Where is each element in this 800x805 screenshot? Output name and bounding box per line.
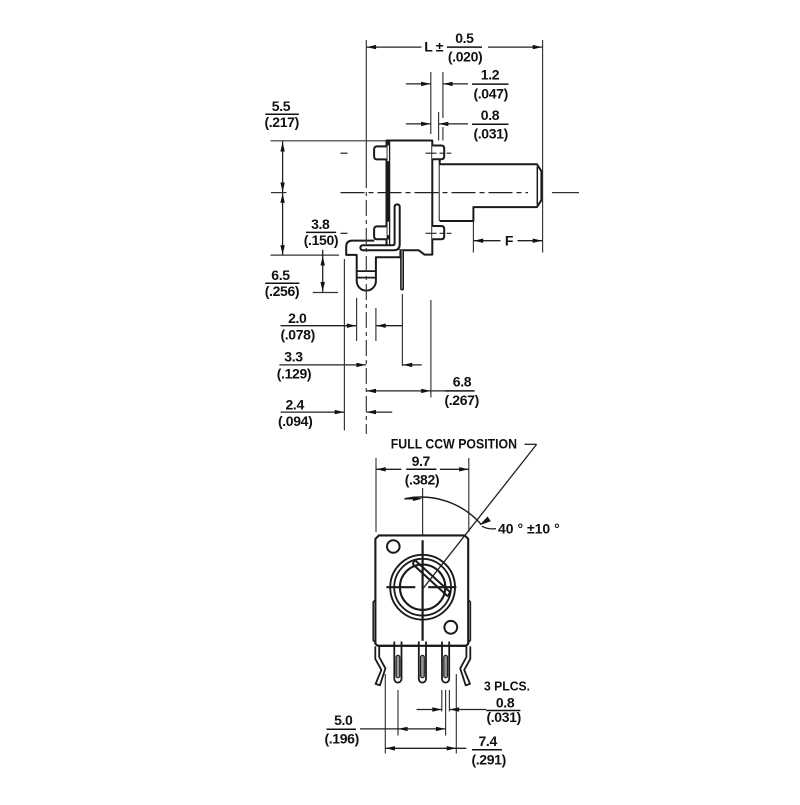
left bent leg	[375, 646, 385, 685]
mounting hole bottom-right	[444, 621, 457, 634]
lower right mounting tab	[432, 226, 444, 239]
bushing and shaft	[440, 164, 542, 221]
plastic base and support pin (bullet)	[346, 241, 400, 291]
svg-text:5.0: 5.0	[334, 712, 353, 728]
base left edge extension line	[343, 259, 345, 431]
0.8/(.031) bottom dimension	[417, 709, 442, 711]
svg-text:5.5: 5.5	[272, 98, 291, 114]
leader tick	[525, 443, 537, 445]
pin tip extension line	[313, 292, 338, 294]
svg-text:(.129): (.129)	[277, 366, 311, 382]
horizontal center line of shaft	[271, 192, 287, 194]
0.8/(.031) dimension	[438, 112, 440, 141]
right bent leg	[460, 646, 470, 685]
svg-text:L ±: L ±	[424, 39, 443, 55]
pin 1	[394, 642, 401, 683]
support pin edge extension lines	[356, 298, 358, 341]
svg-text:(.291): (.291)	[471, 751, 505, 767]
svg-text:(.382): (.382)	[405, 471, 439, 487]
svg-text:2.0: 2.0	[288, 310, 307, 326]
6.8/(.267) dimension	[367, 390, 446, 392]
shaft chamfer inner line	[536, 167, 538, 205]
body right edge extension line	[430, 300, 432, 398]
vertical center line of support pin (ext line for L dim)	[365, 40, 367, 172]
svg-text:9.7: 9.7	[412, 453, 431, 469]
pin 2	[419, 642, 426, 683]
body left inner wall	[389, 141, 391, 250]
svg-text:0.8: 0.8	[481, 107, 500, 123]
support pin center line (dash-dot)	[365, 172, 367, 434]
1.2/(.047) dimension	[430, 72, 432, 134]
svg-text:(.217): (.217)	[264, 114, 298, 130]
svg-text:1.2: 1.2	[481, 67, 500, 83]
svg-text:3.3: 3.3	[284, 349, 303, 365]
svg-text:F: F	[505, 233, 514, 249]
svg-text:FULL CCW POSITION: FULL CCW POSITION	[391, 435, 517, 451]
shaft center line (dash-dot)	[341, 192, 529, 194]
svg-text:0.5: 0.5	[455, 30, 474, 46]
40 degree arc	[405, 497, 481, 524]
F dimension	[474, 240, 501, 242]
tab slot center lines (dash-dot)	[341, 152, 353, 154]
lower left mounting tab	[374, 226, 387, 239]
rotor rings	[390, 555, 455, 620]
support pin crimp lines	[357, 270, 376, 272]
base bottom extension line	[271, 254, 340, 256]
rotor crosshair	[422, 540, 424, 641]
svg-text:2.4: 2.4	[285, 396, 304, 412]
mounting hole top-left	[387, 540, 400, 553]
leader line to rotor slot	[422, 444, 536, 589]
svg-text:3.8: 3.8	[311, 216, 330, 232]
svg-text:(.047): (.047)	[473, 85, 507, 101]
9.7/(.382) dimension	[375, 458, 377, 532]
metal bracket (L-shaped strip)	[360, 204, 399, 250]
7.4/(.291) dimension	[386, 747, 467, 749]
svg-text:0.8: 0.8	[496, 694, 515, 710]
5.5 vertical dimension line	[282, 142, 284, 193]
svg-text:(.256): (.256)	[265, 283, 299, 299]
potentiometer body (side view)	[387, 141, 433, 255]
svg-text:6.8: 6.8	[453, 373, 472, 389]
body top extension line	[271, 140, 387, 142]
right side tab bump	[468, 600, 470, 643]
right extension line of L dim	[542, 40, 544, 253]
front view vertical center line	[422, 488, 424, 535]
svg-text:6.5: 6.5	[271, 267, 290, 283]
svg-text:(.020): (.020)	[448, 48, 482, 64]
svg-text:(.196): (.196)	[324, 731, 358, 747]
svg-text:(.031): (.031)	[473, 126, 507, 142]
svg-text:(.078): (.078)	[280, 327, 314, 343]
upper right mounting tab	[432, 146, 444, 160]
middle terminal pin (side view)	[401, 250, 403, 289]
F left extension line	[472, 222, 474, 253]
svg-text:(.094): (.094)	[278, 413, 312, 429]
upper left mounting tab	[374, 146, 387, 159]
svg-text:(.150): (.150)	[304, 232, 338, 248]
svg-text:(.267): (.267)	[444, 392, 478, 408]
extension lines below	[397, 690, 399, 736]
front body bottom edge overlay	[377, 645, 466, 647]
pin 3	[442, 642, 449, 683]
left side tab bump	[373, 600, 375, 643]
svg-text:40 ° ±10 °: 40 ° ±10 °	[498, 520, 560, 536]
hook to 40 deg text	[482, 526, 496, 529]
svg-text:3 PLCS.: 3 PLCS.	[484, 679, 530, 694]
bushing mounting plate right edge	[439, 159, 441, 221]
middle pin extension line	[401, 294, 403, 366]
rotor slot (full CCW position)	[413, 560, 450, 597]
svg-text:7.4: 7.4	[478, 733, 497, 749]
L +- 0.5/(.020) dimension	[367, 46, 422, 48]
6.5 vertical dimension line	[282, 193, 284, 255]
svg-text:(.031): (.031)	[486, 709, 520, 725]
front view body	[375, 535, 468, 645]
